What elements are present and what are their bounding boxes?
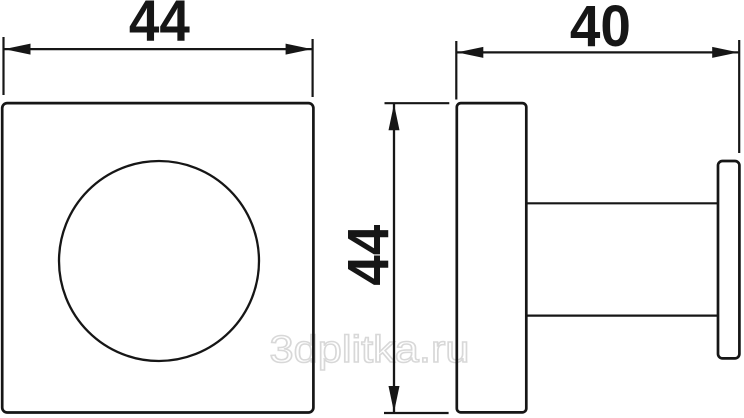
dim 44 side: top arrowhead xyxy=(389,104,400,130)
front view: hook circle xyxy=(59,161,259,361)
dim 40: right arrowhead xyxy=(712,47,738,58)
side view: hook face plate xyxy=(718,161,739,358)
dim 44 side: bottom arrowhead xyxy=(389,386,400,412)
side view: wall plate xyxy=(457,103,527,412)
svg-text:44: 44 xyxy=(336,225,401,286)
dim 40: right extension line xyxy=(738,40,740,153)
svg-text:44: 44 xyxy=(129,0,190,54)
dim 40: left arrowhead xyxy=(457,47,483,58)
dim 44 top: right arrowhead xyxy=(286,44,312,55)
side view: stem bottom line xyxy=(527,315,719,317)
dim 44 side: bottom extension line xyxy=(384,412,449,414)
dim 40: left extension line xyxy=(455,41,457,100)
dim 40: dimension line xyxy=(456,51,739,53)
dim 44 top: right extension line xyxy=(312,39,314,97)
dim 44 top: left arrowhead xyxy=(4,44,30,55)
dim 44 top: left extension line xyxy=(2,37,4,95)
svg-text:40: 40 xyxy=(570,0,631,59)
front view: square face plate xyxy=(2,103,313,412)
side view: stem top line xyxy=(527,202,719,204)
svg-text:3dplitka.ru: 3dplitka.ru xyxy=(270,329,470,371)
dim 44 top: dimension line xyxy=(4,48,313,50)
dim 44 side: dimension line xyxy=(393,103,395,413)
dim 44 side: top extension line xyxy=(385,102,450,104)
